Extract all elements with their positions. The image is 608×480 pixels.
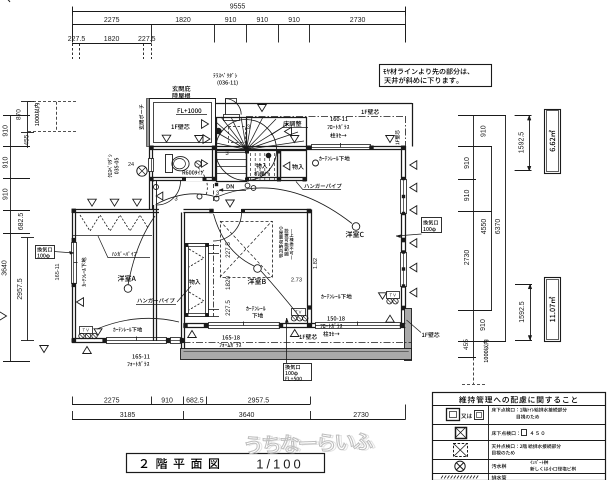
svg-text:910: 910	[464, 189, 471, 201]
label カーテンレール A bottom	[113, 327, 142, 332]
vent triangle closet2	[283, 162, 290, 170]
watermark うちなーらいふ	[248, 432, 375, 454]
vent triangle	[410, 206, 417, 215]
vent triangle	[410, 161, 417, 170]
1F roof outline	[216, 103, 412, 105]
svg-text:9555: 9555	[230, 4, 246, 11]
switch hall 2	[214, 196, 219, 201]
vent triangle	[410, 183, 417, 192]
corridor/yoshitsuA divider wall	[153, 205, 155, 341]
corridor right wall down to balcony	[181, 213, 183, 349]
light 洋室C	[352, 223, 360, 231]
window 150-18	[316, 323, 401, 329]
svg-text:910: 910	[480, 319, 487, 331]
hanger marks middle closet	[189, 249, 204, 267]
svg-text:4550: 4550	[481, 219, 488, 235]
light 洋室B	[254, 265, 262, 273]
vent triangle near TV A	[94, 329, 102, 335]
vent triangle	[410, 263, 417, 272]
svg-text:910: 910	[481, 125, 488, 137]
label 玄関庇	[172, 86, 190, 92]
top window 160-11	[312, 145, 371, 150]
vent triangle near TV C	[379, 293, 387, 299]
svg-text:1820: 1820	[175, 17, 191, 24]
wiring arc A switch-light	[128, 216, 155, 285]
wiring arc B	[214, 214, 255, 266]
door swing into B	[213, 212, 242, 214]
1F wall center line (dash-dot) top	[246, 116, 405, 118]
PS symbol left	[137, 166, 147, 176]
toilet room walls	[150, 177, 216, 179]
stair upper area boundary	[247, 117, 307, 119]
junction below stair	[215, 183, 218, 186]
svg-text:682.5: 682.5	[186, 397, 204, 404]
label 150-18	[328, 316, 345, 320]
stair treads	[216, 152, 247, 154]
vent box bottom 換気口100 FL+500	[284, 364, 312, 381]
toilet fixture	[166, 155, 173, 173]
svg-text:1592.5: 1592.5	[519, 132, 526, 154]
door/wiring arcs hall	[156, 194, 217, 205]
stair fan	[216, 122, 247, 150]
dimension top total 9555	[72, 11, 405, 13]
dimension left chain 2957.5	[27, 238, 29, 341]
dimension right chain 4550	[491, 147, 493, 310]
svg-text:910: 910	[3, 125, 10, 137]
label 物入 hatched closet	[256, 163, 267, 168]
wiring hall to C light	[217, 188, 353, 224]
svg-text:1820: 1820	[104, 36, 120, 43]
svg-text:910: 910	[3, 157, 10, 169]
attic hatch dashed box	[221, 222, 273, 278]
label 玄関ポーチ rotated	[139, 104, 144, 129]
stair handrail circle	[216, 120, 277, 181]
label 物入 closet2	[292, 164, 304, 170]
middle closet 物入	[186, 244, 209, 317]
svg-text:910: 910	[161, 397, 173, 404]
vent triangle	[203, 135, 210, 144]
vent triangle	[202, 120, 209, 129]
svg-text:227.5: 227.5	[225, 242, 232, 258]
vent triangle toilet	[202, 160, 208, 167]
svg-text:3640: 3640	[2, 260, 9, 276]
yoshitsuA top wall	[72, 209, 159, 211]
wiring arc bottom A	[97, 318, 179, 329]
dimension bottom row1 2275/910/682.5/2957.5	[72, 404, 310, 406]
label 物入 middle closet	[189, 279, 200, 284]
vent triangle	[386, 315, 395, 322]
dimension bottom row2 3185/3640/2730	[72, 419, 406, 421]
label 1F壁芯 rotated right	[395, 130, 399, 145]
label FL+1000	[178, 108, 202, 113]
closet hatched 物入机棚あり	[247, 151, 278, 181]
svg-text:227.5: 227.5	[68, 36, 86, 43]
title text	[141, 459, 148, 468]
label カーテンレール下地 C top	[319, 156, 349, 161]
svg-text:T V: T V	[389, 293, 396, 298]
label クロスヘリダシ	[107, 154, 112, 177]
legend row2	[456, 428, 467, 439]
svg-text:T V: T V	[82, 328, 89, 333]
stair top window	[224, 115, 240, 121]
label 160-11 window	[331, 117, 348, 121]
switch hall left	[154, 185, 159, 190]
label 1F壁芯 right	[422, 332, 440, 337]
area box 11.07m2	[545, 278, 561, 342]
vent triangle	[162, 135, 171, 142]
svg-text:910: 910	[3, 188, 10, 200]
vent triangle	[88, 199, 97, 206]
dimension right 1592.5 top	[529, 116, 531, 171]
balcony parapet bottom	[181, 349, 412, 360]
vent box left 換気口100	[36, 246, 55, 259]
vent triangle hall	[156, 192, 163, 200]
svg-text:910: 910	[288, 17, 300, 24]
stair dashed opening	[229, 127, 246, 143]
svg-text:2275: 2275	[104, 397, 120, 404]
title box 2階平面図 1/100	[127, 454, 325, 473]
label 165-18	[223, 335, 240, 339]
legend table 維持管理への配慮に関すること	[433, 393, 606, 480]
svg-text:227.5: 227.5	[225, 300, 232, 316]
canopy left hatched band	[147, 99, 150, 147]
vent triangle	[386, 136, 395, 143]
vent box right 換気口100	[422, 218, 442, 233]
vent triangle	[285, 127, 292, 136]
label 洋室B	[248, 278, 266, 285]
TV outlet box B	[292, 309, 306, 316]
label 1F壁芯 bottom	[300, 334, 318, 339]
svg-text:870: 870	[16, 109, 23, 120]
svg-text:1820: 1820	[225, 276, 232, 291]
entrance canopy 玄関庇	[150, 99, 216, 147]
legend row3	[454, 444, 468, 457]
label 洋室A	[118, 275, 136, 282]
label カーテンレール C bottom	[321, 294, 351, 299]
yoshitsuB top wall with door opening	[184, 209, 214, 211]
vent triangle	[40, 346, 49, 353]
dashed stub below stair	[213, 184, 215, 201]
balcony parapet right	[405, 309, 412, 361]
vent triangle	[290, 330, 299, 337]
label 1F壁芯 top	[362, 109, 380, 114]
in-plan dim 227.5/1820/227.5	[213, 244, 215, 317]
legend row1	[447, 409, 460, 421]
dimension right chain 6370	[505, 116, 507, 342]
svg-text:2957.5: 2957.5	[248, 397, 270, 404]
label ハンガーパイプ C closet	[304, 183, 341, 188]
svg-text:2730: 2730	[350, 17, 366, 24]
top wall with window	[150, 146, 405, 148]
entrance door swing	[226, 99, 237, 104]
yoshitsuB right wall	[307, 210, 309, 328]
label DN	[227, 184, 234, 188]
label 1F壁芯 canopy	[172, 124, 190, 129]
label R600タイプ	[183, 170, 205, 175]
dimension top sub row 227.5/1820/227.5	[72, 43, 151, 45]
label 洋室C	[346, 231, 364, 238]
svg-text:1/100: 1/100	[256, 457, 304, 472]
svg-text:2957.5: 2957.5	[17, 278, 24, 300]
vent triangle	[77, 298, 84, 307]
closet2 物入	[277, 151, 279, 182]
window 165-18	[209, 323, 280, 329]
label 床調整	[283, 121, 301, 127]
vent triangle	[195, 136, 204, 143]
vent triangle	[83, 347, 92, 354]
svg-text:2730: 2730	[353, 412, 369, 419]
label 165-11 bottom	[133, 354, 150, 358]
bottom window wall	[184, 323, 406, 325]
outlet symbol toilet	[195, 161, 201, 167]
svg-text:910: 910	[225, 17, 237, 24]
svg-text:227.5: 227.5	[138, 36, 156, 43]
svg-text:682.5: 682.5	[18, 213, 25, 231]
svg-text:3185: 3185	[120, 412, 136, 419]
svg-text:2.73: 2.73	[291, 278, 302, 284]
svg-text:165-11: 165-11	[55, 263, 61, 280]
vent triangle hall2	[226, 200, 235, 207]
label ハンガーパイプ middle	[137, 298, 174, 303]
legend row5	[441, 476, 478, 479]
label 小屋裏収納	[279, 226, 283, 230]
svg-text:2730: 2730	[464, 250, 471, 266]
1F wall center dash-dot bottom	[184, 342, 412, 344]
svg-text:910: 910	[464, 157, 471, 169]
svg-text:910: 910	[256, 17, 268, 24]
svg-text:1.82: 1.82	[313, 258, 319, 269]
vent triangle	[0, 312, 7, 321]
upper-left wall (toilet outer) with window	[149, 146, 151, 209]
hanger zigzag closet A	[80, 215, 148, 231]
svg-text:3640: 3640	[239, 412, 255, 419]
toilet bowl	[172, 157, 189, 171]
TV outlet box C	[387, 292, 400, 299]
svg-text:1592.5: 1592.5	[519, 301, 526, 323]
svg-text:455: 455	[24, 134, 31, 145]
label カーテンレール A left (rotated)	[81, 258, 86, 287]
dimension top row 2275/1820/910/910/910/2730	[72, 24, 405, 26]
dimension left sub 870/455	[27, 102, 29, 148]
vent triangle	[258, 105, 267, 112]
svg-text:2275: 2275	[104, 17, 120, 24]
dimension right 1592.5 bottom	[530, 284, 532, 340]
vent triangle	[290, 136, 299, 143]
legend header	[459, 396, 577, 403]
dimension right chain1 910/910/910/2730/910/455	[473, 116, 475, 358]
vent triangle	[410, 288, 417, 297]
corner mark circle top-left	[0, 0, 10, 22]
light 洋室A	[124, 285, 132, 293]
note box: moya line note	[380, 65, 492, 87]
svg-text:24: 24	[128, 162, 134, 168]
door swing corridor to A	[156, 181, 158, 205]
wall point stair	[216, 128, 222, 134]
svg-text:455: 455	[463, 339, 470, 350]
bottom wall with windows (yoshitsuA/corridor)	[72, 338, 184, 340]
switch hall 1	[197, 194, 202, 199]
left outer wall with window	[72, 209, 74, 343]
dimension left 1000以内 dashed	[56, 102, 58, 131]
stair square	[217, 118, 247, 182]
vent triangle	[133, 199, 142, 206]
label ハンガーパイプ A	[112, 251, 137, 256]
right wall with windows	[401, 146, 403, 328]
TV outlet box A	[80, 327, 93, 334]
wiring arc B outlet-light	[261, 271, 299, 316]
svg-text:6370: 6370	[495, 219, 502, 235]
label カーテンレール B bottom	[246, 306, 265, 311]
wiring dashed toilet	[198, 168, 207, 196]
dimension left chain 910x3/682.5/3640	[10, 115, 12, 361]
legend row4	[455, 461, 465, 471]
area box 6.62m2	[545, 110, 561, 174]
vent triangle	[410, 239, 417, 248]
vent triangle	[188, 331, 197, 338]
label テラスヘリダシ	[213, 73, 237, 78]
vent triangle	[110, 199, 119, 206]
